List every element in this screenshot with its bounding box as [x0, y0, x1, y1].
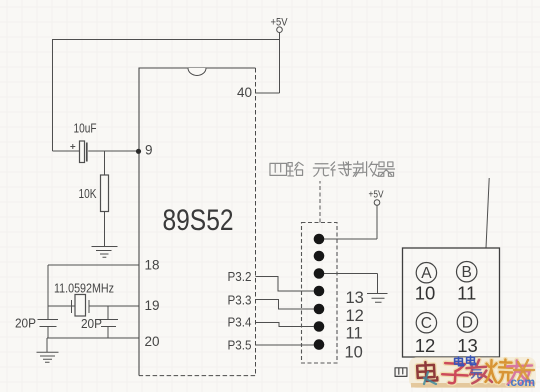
svg-text:18: 18: [145, 258, 160, 273]
svg-text:12: 12: [346, 307, 364, 325]
svg-text:11.0592MHz: 11.0592MHz: [54, 282, 114, 296]
svg-text:+5V: +5V: [369, 190, 384, 201]
svg-text:P3.4: P3.4: [228, 315, 252, 330]
svg-text:20P: 20P: [15, 316, 36, 331]
svg-text:13: 13: [457, 335, 478, 356]
svg-text:10K: 10K: [79, 187, 98, 201]
svg-text:P3.2: P3.2: [228, 269, 252, 284]
svg-text:40: 40: [237, 85, 252, 100]
svg-text:12: 12: [415, 335, 436, 356]
svg-text:10: 10: [415, 283, 436, 304]
svg-text:D: D: [462, 315, 473, 332]
svg-text:+5V: +5V: [271, 17, 289, 29]
svg-text:19: 19: [145, 298, 160, 313]
svg-text:B: B: [462, 264, 472, 281]
svg-text:11: 11: [457, 283, 476, 304]
svg-text:20: 20: [145, 334, 160, 349]
svg-text:10uF: 10uF: [74, 121, 97, 136]
svg-text:89S52: 89S52: [163, 204, 234, 237]
svg-text:.com: .com: [507, 375, 535, 389]
svg-text:P3.3: P3.3: [228, 293, 252, 308]
svg-text:11: 11: [346, 325, 363, 343]
svg-text:10: 10: [345, 344, 363, 362]
svg-text:13: 13: [346, 289, 364, 307]
svg-text:9: 9: [145, 143, 153, 158]
svg-text:C: C: [421, 315, 432, 332]
svg-text:A: A: [421, 265, 432, 282]
svg-text:P3.5: P3.5: [228, 338, 252, 353]
svg-text:20P: 20P: [81, 316, 102, 331]
